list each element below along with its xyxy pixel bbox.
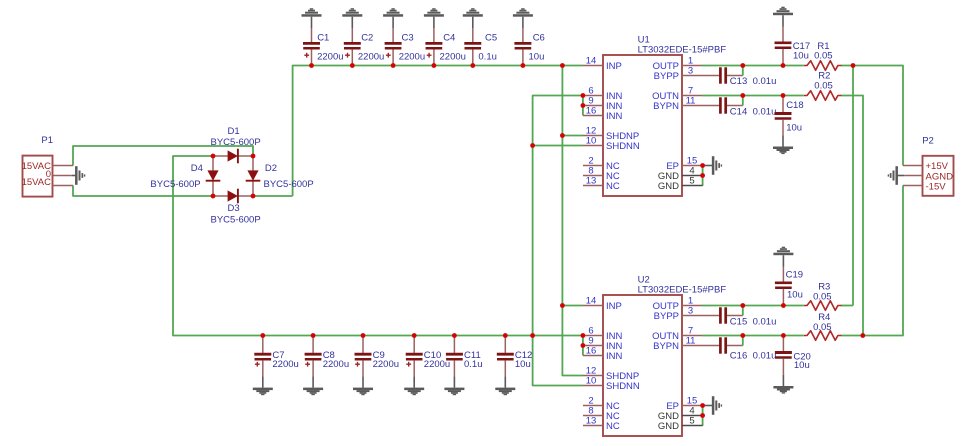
- svg-text:BYPP: BYPP: [654, 71, 679, 82]
- op-amp U2 LT3032EDE-15#PBF: [583, 275, 726, 437]
- capacitor C7 2200u: [253, 336, 299, 396]
- capacitor C5 0.1u: [463, 8, 497, 65]
- svg-text:10u: 10u: [793, 51, 809, 62]
- svg-text:BYC5-600P: BYC5-600P: [150, 179, 200, 190]
- wire R4 to P2 -15V: [841, 186, 903, 336]
- wire -V line from bridge node A: [173, 156, 583, 336]
- diode D1 BYC5-600P: [211, 126, 261, 164]
- wire bridge + output to +V rail riser: [253, 195, 293, 197]
- svg-text:2200u: 2200u: [358, 52, 384, 63]
- wire U2 INN pin tie: [582, 336, 584, 356]
- svg-text:11: 11: [686, 96, 696, 107]
- capacitor C2 2200u: [342, 8, 384, 65]
- resistor R4 0.05: [804, 312, 841, 340]
- svg-text:D1: D1: [228, 126, 240, 137]
- svg-text:BYC5-600P: BYC5-600P: [211, 215, 261, 226]
- svg-text:16: 16: [586, 346, 597, 357]
- capacitor C8 2200u: [303, 336, 349, 396]
- svg-text:10: 10: [586, 376, 597, 387]
- svg-text:C14: C14: [730, 106, 747, 117]
- svg-text:NC: NC: [606, 181, 620, 192]
- wire U1 SHDNP stub: [562, 135, 583, 137]
- ground at P1 pin 2: [72, 166, 85, 185]
- svg-text:0.1u: 0.1u: [478, 52, 497, 63]
- svg-text:D4: D4: [191, 163, 203, 174]
- svg-text:10u: 10u: [787, 289, 803, 300]
- ground at P2 AGND: [888, 166, 904, 185]
- svg-text:0.01u: 0.01u: [753, 351, 777, 362]
- capacitor C16 0.01u: [702, 336, 776, 362]
- svg-text:15VAC: 15VAC: [22, 177, 52, 188]
- svg-text:C18: C18: [786, 100, 803, 111]
- wire R3 up to riser: [841, 305, 853, 307]
- resistor R3 0.05: [804, 281, 841, 310]
- node bridge bottom-left (AC2): [211, 194, 216, 199]
- node bridge top-left (-): [211, 154, 216, 159]
- svg-text:SHDNN: SHDNN: [606, 381, 640, 392]
- wire U1 OUTP to R1: [702, 65, 804, 67]
- svg-text:SHDNN: SHDNN: [606, 141, 640, 152]
- svg-text:C6: C6: [533, 33, 545, 44]
- wire P1 pin3 to bridge AC node C: [73, 186, 213, 197]
- svg-text:INP: INP: [606, 61, 622, 72]
- svg-text:INN: INN: [606, 111, 623, 122]
- capacitor C3 2200u: [383, 8, 425, 65]
- svg-text:BYPN: BYPN: [653, 341, 679, 352]
- capacitor C18 10u: [773, 96, 804, 155]
- wire U2 OUTN to R4: [702, 335, 804, 337]
- svg-text:0.01u: 0.01u: [753, 106, 777, 117]
- wire U2 EP/GND tie: [702, 406, 704, 426]
- svg-text:LT3032EDE-15#PBF: LT3032EDE-15#PBF: [638, 284, 727, 295]
- svg-text:2200u: 2200u: [373, 359, 399, 370]
- svg-text:P1: P1: [41, 135, 53, 146]
- svg-text:NC: NC: [606, 421, 620, 432]
- wire R1 to P2 +15V: [841, 66, 903, 166]
- svg-text:BYPP: BYPP: [654, 311, 679, 322]
- wire P1 pin1 to bridge AC node B: [73, 146, 253, 166]
- svg-text:BYC5-600P: BYC5-600P: [211, 137, 261, 148]
- capacitor C20 10u: [773, 336, 810, 394]
- diode D4 BYC5-600P: [150, 156, 220, 196]
- resistor R1 0.05: [804, 41, 841, 70]
- svg-text:BYC5-600P: BYC5-600P: [264, 179, 314, 190]
- diode D2 BYC5-600P: [246, 156, 314, 196]
- svg-text:0.05: 0.05: [814, 51, 833, 62]
- svg-text:C13: C13: [730, 76, 747, 87]
- svg-text:13: 13: [586, 416, 597, 427]
- capacitor C4 2200u: [424, 8, 466, 65]
- svg-text:10u: 10u: [794, 360, 810, 371]
- svg-text:2200u: 2200u: [440, 52, 466, 63]
- svg-text:2200u: 2200u: [272, 359, 298, 370]
- svg-text:INN: INN: [606, 351, 623, 362]
- ground at U2 EP: [703, 396, 723, 415]
- svg-text:0.05: 0.05: [813, 322, 832, 333]
- capacitor C10 2200u: [404, 336, 450, 396]
- svg-text:C1: C1: [317, 33, 329, 44]
- svg-text:3: 3: [688, 306, 693, 317]
- diode D3 BYC5-600P: [211, 189, 261, 226]
- wire U1 EP/GND tie: [702, 166, 704, 186]
- ground at U1 EP: [703, 156, 723, 175]
- wire U1 OUTN to R2: [702, 95, 804, 97]
- svg-text:-15V: -15V: [926, 181, 947, 192]
- svg-text:GND: GND: [658, 421, 679, 432]
- svg-text:C19: C19: [786, 270, 803, 281]
- svg-text:0.1u: 0.1u: [464, 359, 483, 370]
- svg-text:0.05: 0.05: [814, 81, 833, 92]
- wire U2 INP stub: [562, 305, 583, 307]
- svg-text:14: 14: [586, 56, 597, 67]
- svg-text:C2: C2: [361, 33, 373, 44]
- resistor R2 0.05: [804, 70, 841, 100]
- capacitor C19 10u: [773, 247, 803, 306]
- wire INP branch down to U2 (net +VIN vertical): [562, 66, 583, 376]
- connector P2: [903, 135, 954, 195]
- capacitor C11 0.1u: [444, 336, 482, 396]
- svg-text:0.05: 0.05: [813, 291, 832, 302]
- svg-text:0.01u: 0.01u: [753, 76, 777, 87]
- svg-text:LT3032EDE-15#PBF: LT3032EDE-15#PBF: [638, 44, 727, 55]
- wire U1 SHDNN stub: [533, 145, 583, 147]
- svg-text:D2: D2: [265, 163, 277, 174]
- connector P1: [22, 135, 73, 196]
- wire U1 INN pin tie: [582, 96, 584, 116]
- svg-text:10u: 10u: [786, 122, 802, 133]
- svg-text:11: 11: [686, 336, 696, 347]
- svg-text:INP: INP: [606, 301, 622, 312]
- capacitor C9 2200u: [353, 336, 399, 396]
- wire R2 down to R4 node: [841, 96, 863, 336]
- svg-text:3: 3: [688, 66, 693, 77]
- svg-text:BYPN: BYPN: [653, 101, 679, 112]
- svg-text:2200u: 2200u: [399, 52, 425, 63]
- svg-text:C5: C5: [485, 33, 497, 44]
- capacitor C6 10u: [513, 8, 545, 65]
- svg-text:10: 10: [586, 136, 597, 147]
- capacitor C14 0.01u: [702, 96, 776, 118]
- wire +15V parallel riser to R3: [852, 66, 854, 306]
- op-amp U1 LT3032EDE-15#PBF: [583, 35, 726, 197]
- svg-text:C16: C16: [730, 351, 747, 362]
- svg-text:C4: C4: [443, 33, 455, 44]
- svg-text:5: 5: [689, 416, 694, 427]
- svg-text:GND: GND: [658, 181, 679, 192]
- capacitor C12 10u: [495, 336, 532, 396]
- svg-text:10u: 10u: [515, 359, 531, 370]
- svg-text:5: 5: [689, 176, 694, 187]
- svg-text:2200u: 2200u: [317, 52, 343, 63]
- svg-text:2200u: 2200u: [323, 359, 349, 370]
- svg-text:10u: 10u: [529, 52, 545, 63]
- svg-text:P2: P2: [922, 135, 934, 146]
- node bridge bottom-right (+): [251, 194, 256, 199]
- svg-text:C3: C3: [402, 33, 414, 44]
- capacitor C13 0.01u: [702, 66, 776, 88]
- wire INN branch vertical (U1 INN to U2 SHDNN): [533, 96, 583, 386]
- svg-text:C15: C15: [730, 317, 747, 328]
- wire U2 OUTP to R3: [702, 305, 804, 307]
- svg-text:0.01u: 0.01u: [753, 317, 777, 328]
- svg-text:16: 16: [586, 106, 597, 117]
- node bridge top-right (AC1): [251, 154, 256, 159]
- capacitor C17 10u: [773, 7, 810, 66]
- svg-text:D3: D3: [228, 203, 240, 214]
- svg-text:13: 13: [586, 176, 597, 187]
- wire +V rail from bridge to U1 INP: [293, 66, 583, 197]
- svg-text:14: 14: [586, 296, 597, 307]
- capacitor C1 2200u: [302, 8, 344, 65]
- capacitor C15 0.01u: [702, 306, 776, 328]
